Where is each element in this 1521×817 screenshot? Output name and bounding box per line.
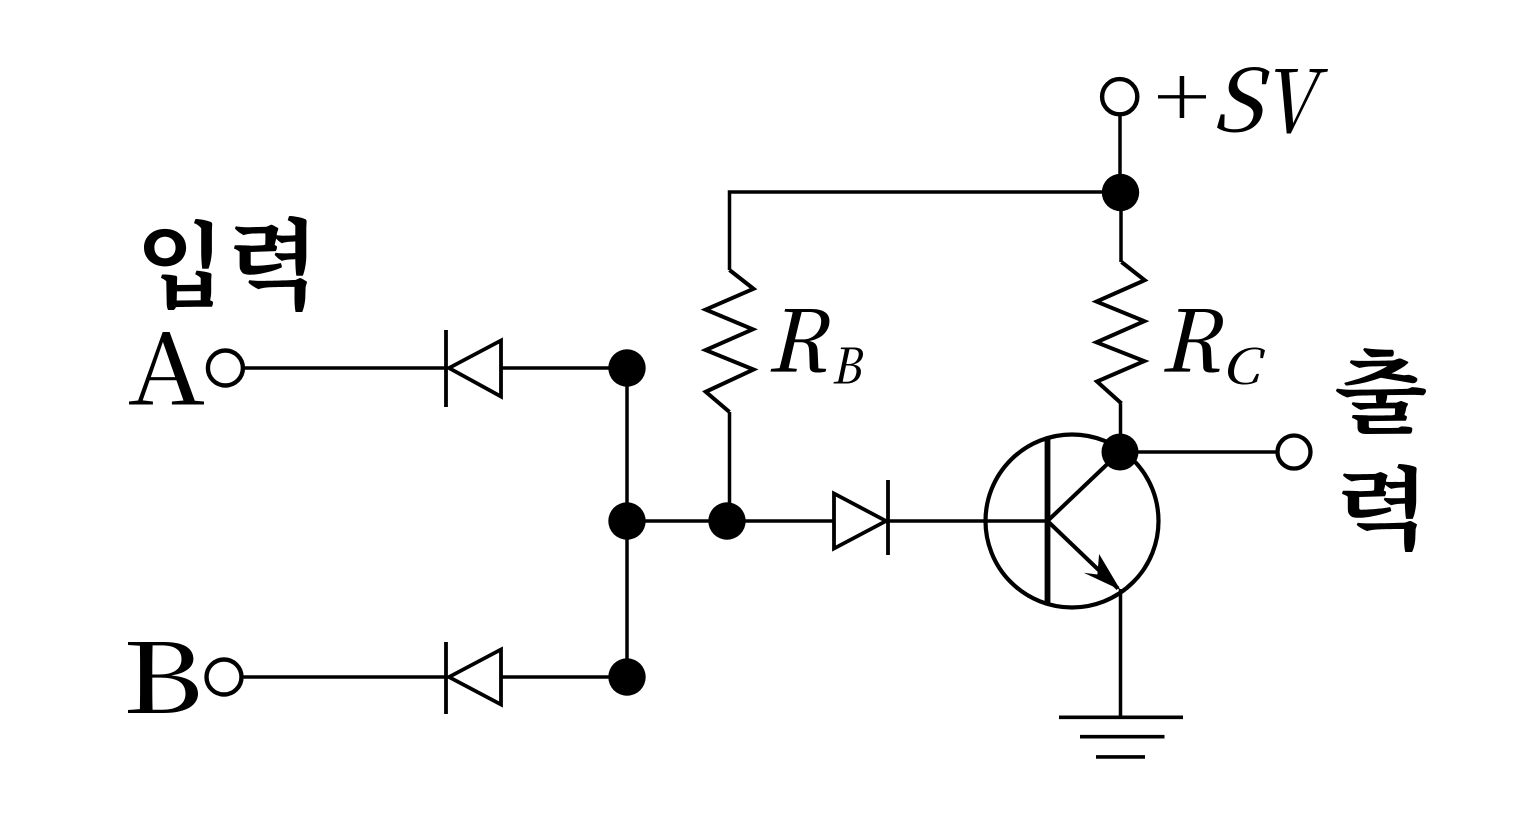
terminal +SV <box>1102 79 1137 114</box>
diode D1 cathode bar <box>444 330 448 407</box>
label A <box>129 332 204 405</box>
junction node mid bus <box>608 502 645 539</box>
junction node A-diode <box>608 349 645 386</box>
terminal A <box>208 351 243 386</box>
wire mid to RB node <box>627 519 727 523</box>
ground <box>1059 717 1183 757</box>
wire emitter to ground <box>1119 589 1123 717</box>
label 출력 (output) <box>1336 348 1426 552</box>
wire input bus vertical <box>625 368 629 677</box>
wire D1 to node <box>501 366 627 370</box>
wire output <box>1138 450 1278 454</box>
wire base node to D3 <box>727 519 834 523</box>
label RB <box>771 309 864 384</box>
transistor Q1 collector lead <box>1048 452 1121 521</box>
transistor Q1 emitter lead <box>1048 521 1119 589</box>
wire RB bottom <box>728 412 732 521</box>
wire B input <box>242 675 445 679</box>
junction node collector <box>1102 434 1139 471</box>
resistor RB <box>706 270 754 412</box>
wire D2 to node <box>501 675 627 679</box>
junction node +SV <box>1102 174 1139 211</box>
terminal output <box>1278 436 1311 469</box>
diode D2 cathode bar <box>444 642 448 714</box>
label RC <box>1164 309 1265 385</box>
wire A input <box>244 366 445 370</box>
transistor Q1 base bar <box>1045 437 1051 606</box>
label +SV <box>1158 67 1328 134</box>
junction node B-diode <box>608 658 645 695</box>
junction node base <box>708 502 745 539</box>
wire RC top <box>1119 192 1123 262</box>
terminal B <box>207 660 242 695</box>
diode D1 <box>449 341 501 397</box>
wire RB top + top rail <box>730 192 1121 270</box>
wire RC bottom <box>1119 404 1123 453</box>
label B <box>128 642 198 713</box>
label 입력 (input) <box>144 216 307 312</box>
diode D2 <box>449 650 501 705</box>
wire to +SV terminal <box>1118 115 1122 192</box>
wire D3 to base <box>888 519 1046 523</box>
transistor Q1 emitter arrow <box>1084 554 1121 590</box>
diode D3 cathode bar <box>886 480 890 555</box>
transistor Q1 body <box>986 435 1159 608</box>
resistor RC <box>1097 262 1145 404</box>
diode D3 <box>834 494 886 549</box>
